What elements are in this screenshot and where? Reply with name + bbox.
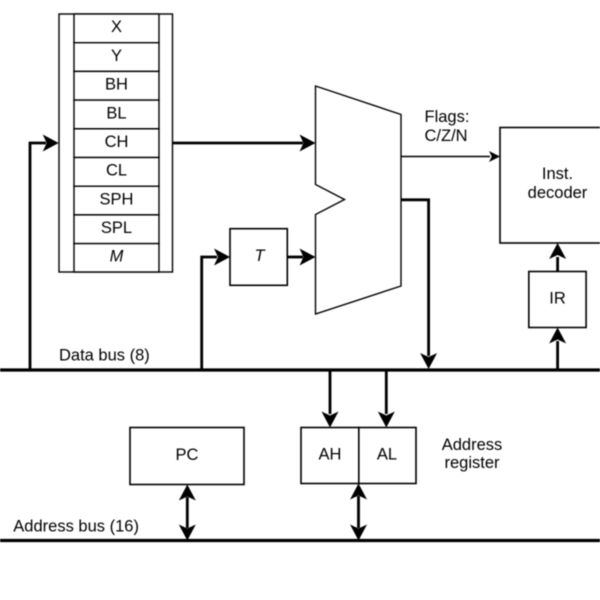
wire: data bus down to AL: [378, 370, 395, 428]
svg-text:SPH: SPH: [100, 190, 134, 208]
register CL: [74, 158, 159, 187]
svg-text:Address bus (16): Address bus (16): [13, 517, 139, 535]
wire: ALU output to data bus: [401, 200, 437, 369]
svg-text:decoder: decoder: [528, 184, 588, 202]
svg-text:register: register: [444, 454, 500, 472]
svg-text:CH: CH: [105, 133, 129, 151]
wire: T register to ALU input B: [287, 249, 315, 266]
svg-text:X: X: [111, 18, 122, 36]
svg-text:SPL: SPL: [101, 219, 132, 237]
svg-text:M: M: [110, 248, 124, 266]
register BH: [74, 71, 159, 100]
svg-text:IR: IR: [549, 289, 566, 307]
address register label: [442, 436, 503, 472]
wire: address register to address bus (bidirectional): [350, 484, 367, 541]
register file outer frame: [59, 14, 173, 272]
svg-text:CL: CL: [106, 162, 127, 180]
data bus label: [59, 346, 150, 364]
svg-text:AH: AH: [319, 445, 342, 463]
register M: [74, 244, 159, 272]
register SPL: [74, 215, 159, 244]
register Y: [74, 43, 159, 72]
svg-text:Data bus (8): Data bus (8): [59, 346, 150, 364]
svg-text:BH: BH: [105, 76, 128, 94]
PC register: [130, 428, 244, 485]
svg-text:PC: PC: [176, 446, 199, 464]
svg-text:Address: Address: [442, 436, 503, 454]
instruction decoder: [500, 128, 600, 244]
wire: data bus to register file (left): [30, 135, 59, 371]
wire: register file to ALU input A: [173, 135, 316, 152]
wire: data bus up to IR: [549, 328, 566, 371]
wire: data bus up to T register: [202, 249, 230, 371]
wire: IR to instruction decoder: [549, 243, 566, 272]
register CH: [74, 129, 159, 158]
AH register: [301, 428, 359, 484]
wire: PC to address bus (bidirectional): [179, 485, 196, 541]
svg-text:BL: BL: [106, 104, 126, 122]
svg-text:Flags:: Flags:: [425, 108, 470, 126]
register X: [74, 14, 159, 43]
wire: data bus down to AH: [322, 370, 339, 428]
AL register: [359, 428, 416, 484]
register SPH: [74, 186, 159, 215]
register BL: [74, 100, 159, 129]
flags label: [425, 108, 470, 145]
flags arrow: ALU to instruction decoder: [401, 151, 500, 162]
address bus: [0, 539, 600, 542]
address bus label: [13, 517, 139, 535]
svg-text:C/Z/N: C/Z/N: [425, 127, 468, 145]
ALU U1: [316, 86, 402, 314]
IR register: [529, 272, 586, 328]
svg-text:Y: Y: [111, 47, 122, 65]
svg-text:Inst.: Inst.: [542, 165, 573, 183]
T register: [230, 229, 287, 286]
svg-text:AL: AL: [377, 445, 397, 463]
data bus: [0, 368, 600, 371]
